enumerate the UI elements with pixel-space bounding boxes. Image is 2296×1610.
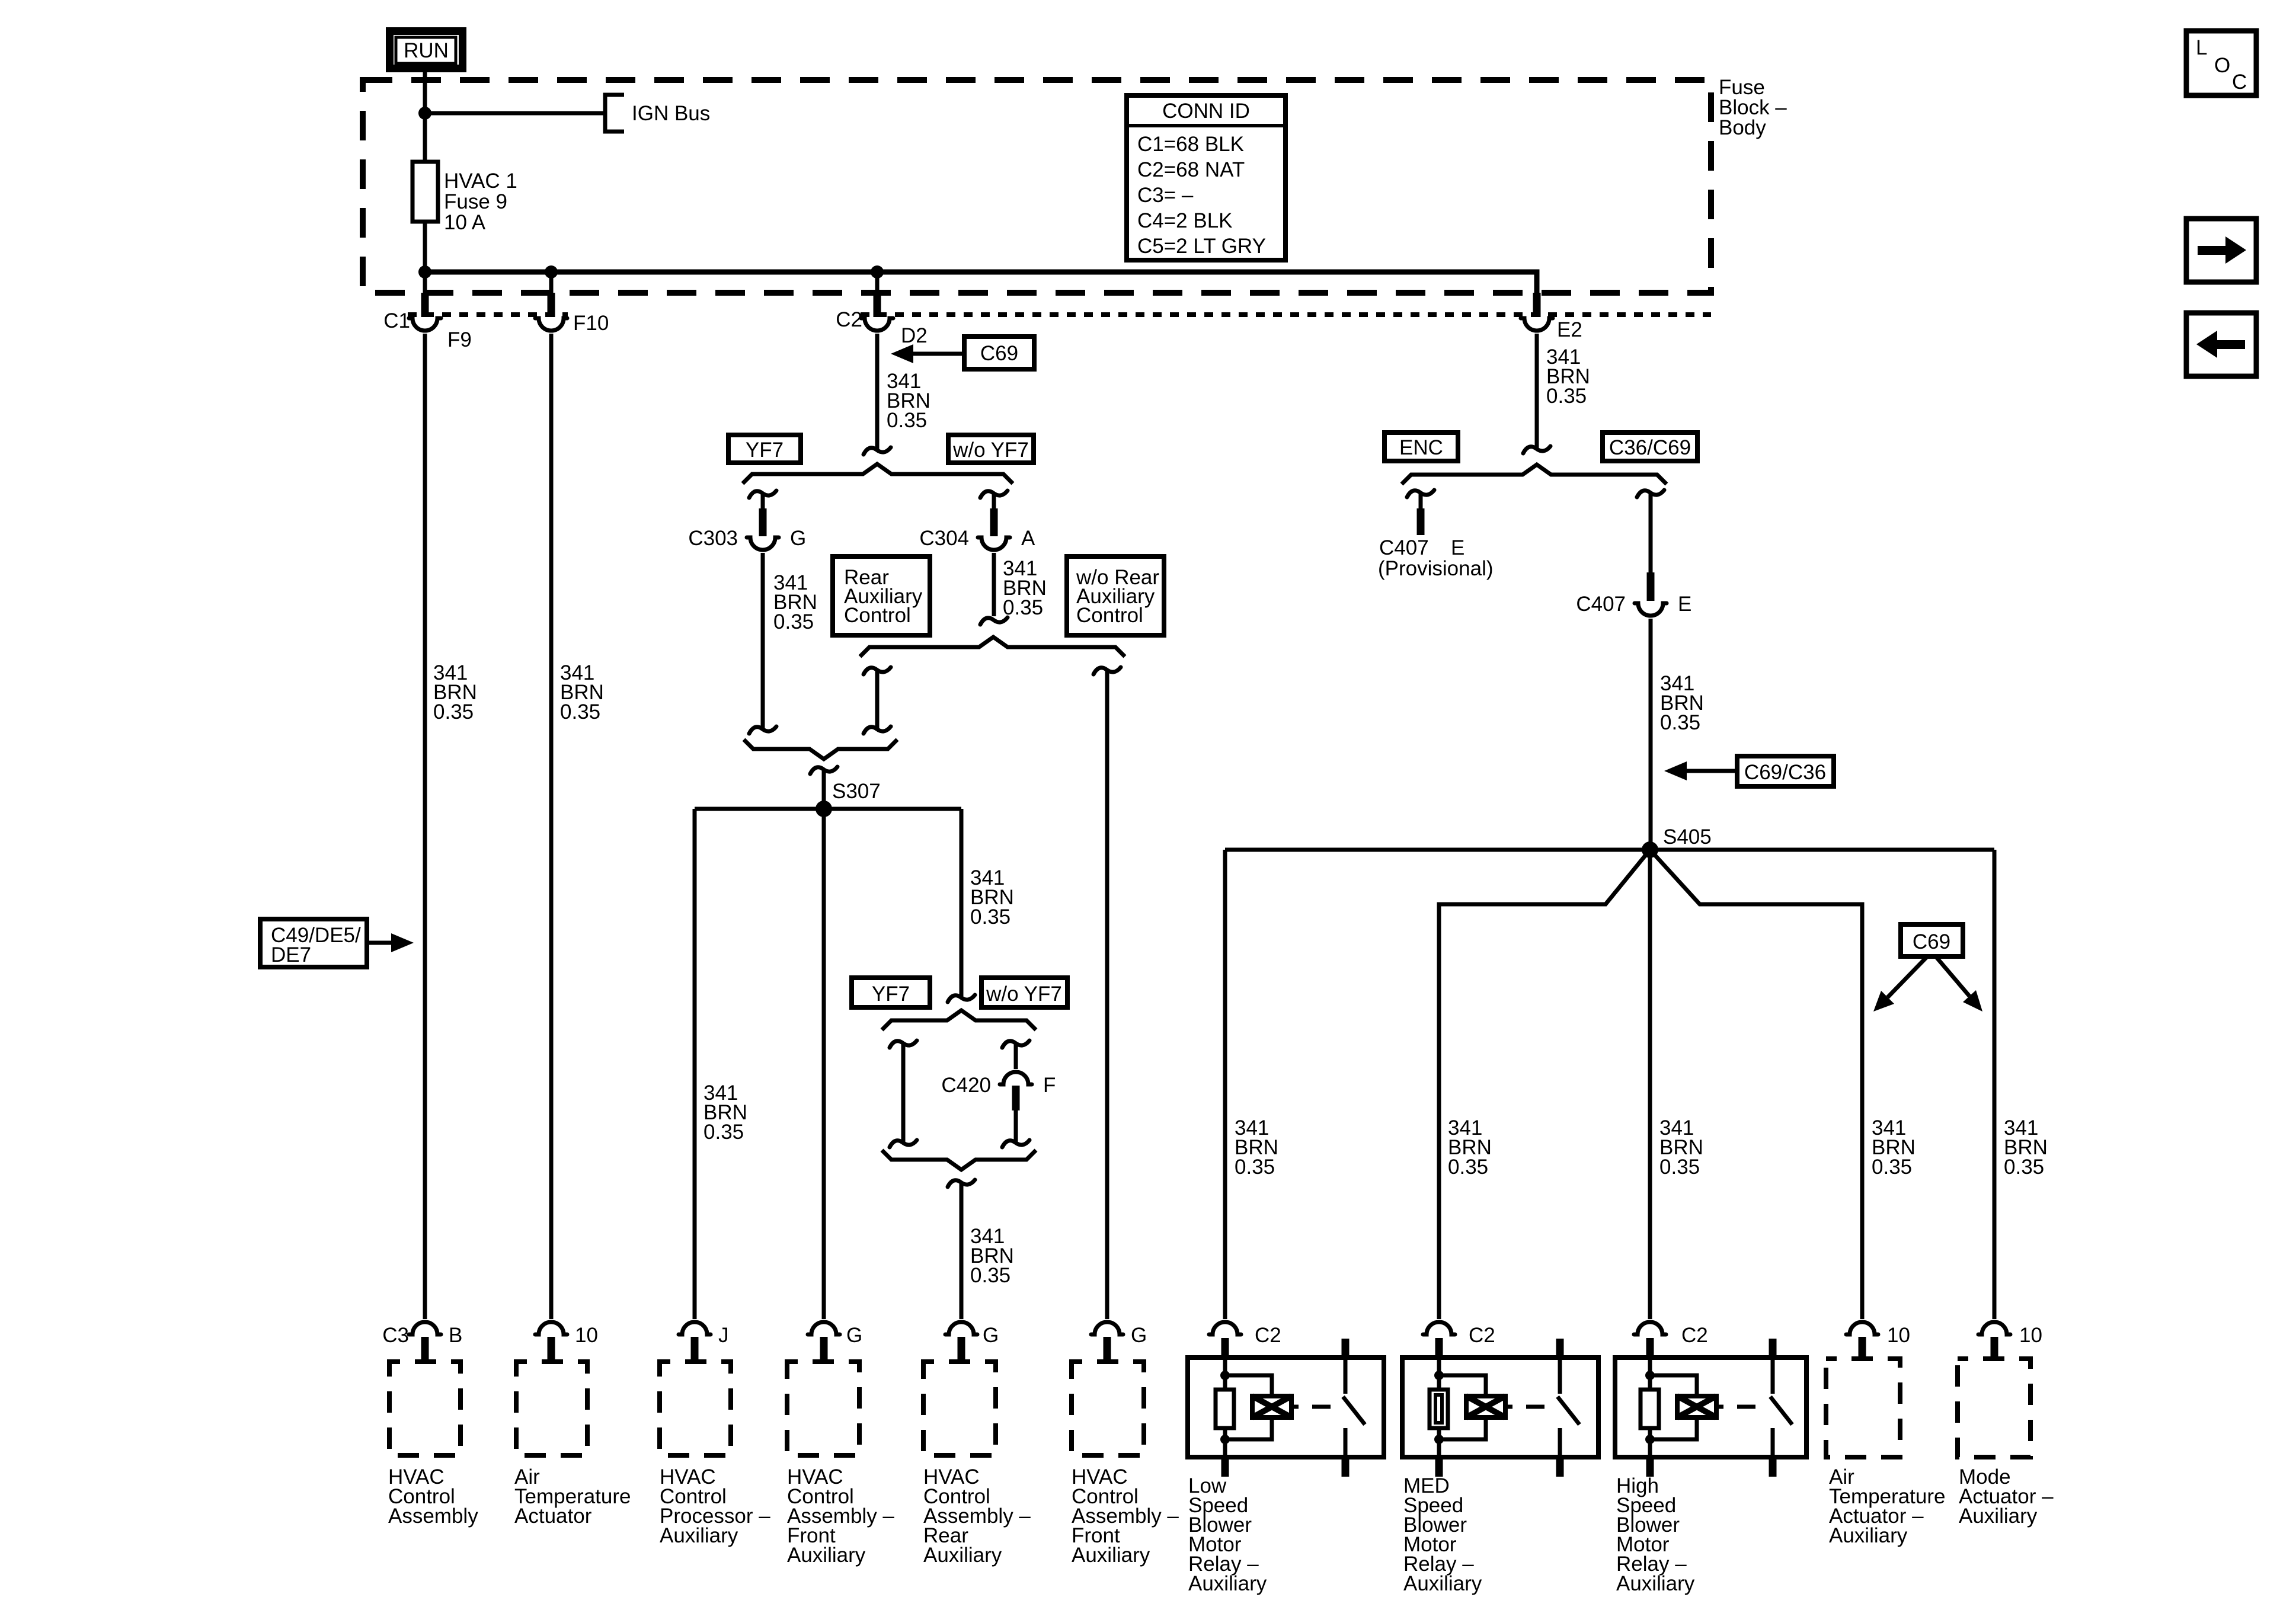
actuation dash link: [1737, 1405, 1755, 1409]
connector C407 pin E: [1576, 572, 1691, 616]
wire w/o rear auxiliary control branch: [1105, 670, 1109, 1319]
wire break YF7 left branch: [890, 1041, 917, 1048]
wire below resistor: [1437, 1428, 1441, 1457]
LOC reference box: [2186, 31, 2256, 95]
coil actuation stub: [1291, 1405, 1299, 1409]
svg-text:G: G: [846, 1324, 862, 1347]
switch output terminal: [1558, 1428, 1562, 1457]
wire below C420: [1014, 1110, 1018, 1143]
svg-text:10: 10: [575, 1324, 598, 1347]
wire down to C407: [1649, 493, 1653, 574]
component box Air Temperature Actuator: [516, 1362, 587, 1455]
svg-text:G: G: [1131, 1324, 1147, 1347]
svg-text:E2: E2: [1557, 318, 1582, 341]
wire into S307: [822, 770, 826, 809]
node dot at F9 tap: [418, 265, 431, 279]
svg-text:G: G: [790, 527, 806, 550]
wire to coil top: [1225, 1375, 1272, 1396]
wire break above C304: [980, 491, 1008, 498]
wire 341 BRN 0.35 from C303: [761, 553, 765, 729]
relay K1 Low Speed Blower Motor Relay - Auxiliary: [1188, 1322, 1384, 1595]
svg-text:C69: C69: [1913, 930, 1950, 953]
wire coil feed: [1648, 1358, 1652, 1390]
wire to coil top: [1439, 1375, 1486, 1396]
terminal stub below coil: [1646, 1457, 1654, 1477]
wire break w/o-rear-aux branch: [1093, 667, 1121, 674]
wire 341 BRN 0.35 from C304: [992, 553, 996, 616]
node dot bottom: [1220, 1435, 1230, 1444]
terminal stub below coil: [1221, 1457, 1229, 1477]
harness callout box C69 with arrow to D2 wire: [891, 337, 1034, 369]
fuse block - body dashed border: [363, 80, 1711, 293]
wire break below C304: [980, 617, 1008, 625]
svg-text:C407: C407: [1379, 536, 1429, 559]
connector row dashed line C1 group: [408, 312, 568, 317]
connector C303 pin G: [688, 494, 806, 550]
switch output terminal: [1771, 1428, 1775, 1457]
wire from coil bottom: [1650, 1417, 1697, 1439]
wire S405 to mode actuator auxiliary: [1993, 850, 1997, 1319]
svg-text:L: L: [2196, 36, 2207, 59]
wire to HVAC control assembly rear auxiliary: [960, 1183, 964, 1319]
wire to IGN Bus: [425, 111, 605, 116]
harness callout box C69/C36 with arrow to wire: [1664, 756, 1834, 786]
connector C2 low relay: [1209, 1322, 1241, 1334]
svg-text:10: 10: [1887, 1324, 1910, 1347]
component box HVAC Control Assembly: [389, 1362, 461, 1455]
wire coil feed: [1437, 1358, 1441, 1390]
svg-text:C2: C2: [836, 308, 862, 331]
svg-text:J: J: [718, 1324, 729, 1347]
wire break C36/C69 branch: [1637, 490, 1664, 497]
svg-text:YF7: YF7: [872, 982, 910, 1006]
svg-text:(Provisional): (Provisional): [1378, 557, 1494, 580]
splice node S405: [1642, 825, 1712, 858]
relay coil: [1677, 1396, 1716, 1417]
wire S307 right branch down: [960, 809, 964, 998]
harness callout box C49/DE5/DE7 with arrow to F9 wire: [260, 919, 414, 967]
connector pin 10 air temperature actuator: [535, 1322, 598, 1363]
svg-text:F: F: [1043, 1074, 1056, 1097]
svg-text:CONN ID: CONN ID: [1162, 100, 1250, 123]
wire: ignition feed bus inside fuse block: [425, 272, 1537, 293]
node dot at F10 tap: [545, 265, 558, 279]
svg-text:w/o YF7: w/o YF7: [986, 982, 1062, 1006]
option split brace under E2 wire: [1402, 465, 1667, 484]
wire break above merge S307 right: [864, 726, 891, 734]
svg-text:C: C: [2232, 71, 2247, 94]
relay K2 MED Speed Blower Motor Relay - Auxiliary: [1402, 1322, 1598, 1595]
svg-text:C69: C69: [980, 342, 1018, 365]
merge brace below C420 options: [882, 1150, 1036, 1170]
wire 341 BRN 0.35 to S405: [1649, 619, 1653, 850]
relay coil: [1252, 1396, 1291, 1417]
connector pin F10: [535, 272, 609, 335]
connector row dashed line C2 group: [861, 312, 1711, 317]
switch blade: [1558, 1397, 1579, 1425]
svg-text:D2: D2: [901, 324, 928, 347]
terminal stub below switch: [1769, 1457, 1777, 1477]
wire 341 BRN 0.35 from C1 F9: [423, 334, 427, 1319]
svg-text:C1: C1: [383, 309, 410, 332]
splice node S307: [816, 780, 881, 817]
option split brace YF7: [882, 1010, 1036, 1030]
coil actuation stub: [1505, 1405, 1512, 1409]
switch common terminal: [1556, 1339, 1564, 1358]
switch common terminal: [1769, 1339, 1777, 1358]
svg-text:F9: F9: [447, 328, 472, 351]
connector C2 pin D2: [836, 272, 928, 347]
svg-text:B: B: [449, 1324, 462, 1347]
svg-text:S307: S307: [832, 780, 881, 803]
terminal stub below coil: [1435, 1457, 1443, 1477]
svg-text:A: A: [1021, 527, 1035, 550]
resistor: [1641, 1390, 1659, 1428]
svg-text:E: E: [1678, 593, 1691, 616]
wire S307 horizontal: [695, 807, 961, 811]
svg-text:C36/C69: C36/C69: [1609, 436, 1691, 459]
option label box YF7 second: [852, 978, 930, 1007]
node: IGN Bus junction dot: [418, 107, 431, 120]
connector C1 pin F9: [383, 272, 472, 351]
relay box: [1615, 1358, 1806, 1457]
option label box Rear Auxiliary Control: [833, 556, 930, 635]
svg-text:O: O: [2214, 54, 2230, 77]
relay K3 High Speed Blower Motor Relay - Auxiliary: [1615, 1322, 1806, 1595]
wire below resistor: [1223, 1428, 1227, 1457]
connector C420 pin F: [941, 1072, 1056, 1110]
wire break merge left: [890, 1140, 917, 1147]
wire break above merge S307 left: [749, 726, 776, 734]
node dot bottom: [1645, 1435, 1655, 1444]
switch blade: [1343, 1397, 1365, 1425]
resistor: [1216, 1390, 1234, 1428]
option split brace under C304: [860, 637, 1125, 657]
wire to coil top: [1650, 1375, 1697, 1396]
component box HVAC Control Processor Auxiliary: [660, 1362, 731, 1455]
wire break above YF7 split: [948, 995, 975, 1002]
connector C2 high relay: [1634, 1322, 1666, 1334]
fuse HVAC 1 Fuse 9 10 A: [412, 162, 438, 222]
svg-text:C420: C420: [941, 1074, 991, 1097]
wire break YF7 right branch: [1002, 1041, 1029, 1048]
terminal stub below switch: [1556, 1457, 1564, 1477]
wire S307 to HVAC control assembly front auxiliary: [822, 809, 826, 1319]
wire S405 diagonal to air temperature actuator auxiliary: [1650, 850, 1862, 1319]
wire rear-aux left branch: [875, 670, 880, 729]
connector C2 MED relay: [1423, 1322, 1455, 1334]
wire from RUN into fuse block: [423, 72, 427, 162]
option label box ENC: [1384, 433, 1458, 461]
wire 341 BRN 0.35 from D2: [875, 334, 880, 450]
coil actuation stub: [1716, 1405, 1723, 1409]
switch position box RUN: [390, 31, 463, 69]
svg-text:C304: C304: [919, 527, 969, 550]
merge brace into S307: [744, 740, 897, 759]
svg-text:G: G: [983, 1324, 999, 1347]
connector pin G front auxiliary second: [1091, 1322, 1147, 1363]
wire below resistor: [1648, 1428, 1652, 1457]
svg-text:ENC: ENC: [1399, 436, 1443, 459]
svg-text:C2: C2: [1469, 1324, 1495, 1347]
navigation box arrow left: [2186, 313, 2256, 376]
navigation box arrow right: [2186, 219, 2256, 282]
connector pin 10 air temperature actuator auxiliary: [1846, 1322, 1910, 1360]
connector C407 pin E provisional: [1378, 493, 1494, 580]
wire S307 to HVAC control processor: [693, 809, 697, 1319]
option label box YF7: [728, 435, 801, 463]
relay box: [1188, 1358, 1384, 1457]
wire S405 diagonal to MED relay: [1439, 850, 1650, 1319]
wire break ENC branch: [1407, 490, 1434, 497]
svg-text:YF7: YF7: [746, 438, 784, 462]
connector pin G rear auxiliary: [945, 1322, 999, 1363]
svg-text:C69/C36: C69/C36: [1744, 761, 1826, 784]
node dot at D2 tap: [871, 265, 884, 279]
svg-text:C2: C2: [1681, 1324, 1708, 1347]
CONN ID table box: [1127, 95, 1285, 260]
component box HVAC Control Assembly Rear Auxiliary: [923, 1362, 996, 1455]
component box Mode Actuator Auxiliary: [1958, 1359, 2030, 1457]
connector pin E2: [1521, 293, 1582, 341]
svg-text:w/o YF7: w/o YF7: [952, 438, 1029, 462]
wire break merge right: [1002, 1140, 1029, 1147]
node dot top: [1220, 1371, 1230, 1380]
svg-text:C3: C3: [382, 1324, 409, 1347]
component box HVAC Control Assembly Front Auxiliary second: [1072, 1362, 1144, 1455]
wire YF7 left branch: [901, 1044, 906, 1143]
terminal stub below switch: [1342, 1457, 1350, 1477]
option label box C36/C69: [1603, 433, 1697, 461]
wire from coil bottom: [1439, 1417, 1486, 1439]
wire from coil bottom: [1225, 1417, 1272, 1439]
svg-text:S405: S405: [1663, 825, 1712, 849]
svg-text:10: 10: [2019, 1324, 2042, 1347]
relay coil: [1466, 1396, 1505, 1417]
svg-text:C303: C303: [688, 527, 738, 550]
node dot top: [1434, 1371, 1444, 1380]
node dot top: [1645, 1371, 1655, 1380]
wire from fuse to bus: [423, 222, 427, 272]
wire break below merge: [948, 1180, 975, 1187]
component box Air Temperature Actuator Auxiliary: [1826, 1359, 1900, 1457]
option label box w/o YF7 second: [981, 978, 1067, 1007]
option split brace under D2 wire: [743, 464, 1013, 484]
svg-text:IGN Bus: IGN Bus: [632, 102, 710, 125]
svg-text:E: E: [1451, 536, 1464, 559]
wire S405 to low speed relay: [1223, 850, 1227, 1319]
component box HVAC Control Assembly Front Auxiliary: [787, 1362, 859, 1455]
wire break at D2 branch split: [864, 447, 891, 454]
svg-text:C407: C407: [1576, 593, 1626, 616]
wire break rear-aux left branch: [864, 667, 891, 674]
switch blade: [1770, 1397, 1792, 1425]
wire 341 BRN 0.35 from F10: [549, 334, 554, 1319]
connector pin G front auxiliary: [808, 1322, 862, 1363]
svg-text:C2: C2: [1255, 1324, 1281, 1347]
wire S405 horizontal: [1225, 848, 1994, 852]
relay box: [1402, 1358, 1598, 1457]
wire break below merge brace: [810, 767, 837, 774]
wire 341 BRN 0.35 from E2: [1535, 334, 1539, 449]
switch common terminal: [1342, 1339, 1350, 1358]
actuation dash link: [1526, 1405, 1544, 1409]
IGN Bus bracket symbol: [605, 95, 624, 132]
node dot bottom: [1434, 1435, 1444, 1444]
option label box w/o Rear Auxiliary Control: [1067, 556, 1164, 635]
svg-text:F10: F10: [573, 312, 609, 335]
wire break above C303: [749, 491, 776, 498]
switch output terminal: [1344, 1428, 1348, 1457]
wire break below E2 wire: [1523, 446, 1550, 453]
harness callout box C69 with two arrows: [1873, 924, 1982, 1012]
svg-text:RUN: RUN: [404, 39, 449, 62]
wire to C420: [1014, 1044, 1018, 1069]
connector pin J: [679, 1322, 729, 1363]
connector pin 10 mode actuator auxiliary: [1978, 1322, 2042, 1360]
option label box w/o YF7: [948, 435, 1034, 463]
connector C304 pin A: [919, 494, 1035, 550]
resistor fuse style: [1430, 1390, 1448, 1428]
wire S405 to high speed relay: [1648, 850, 1652, 1319]
connector C3 pin B: [382, 1322, 462, 1363]
actuation dash link: [1312, 1405, 1331, 1409]
wire coil feed: [1223, 1358, 1227, 1390]
